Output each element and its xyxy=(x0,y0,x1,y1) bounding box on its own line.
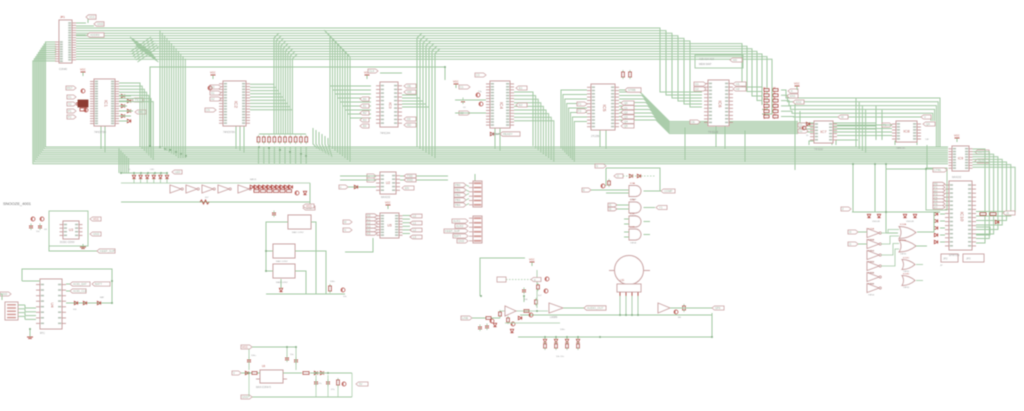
svg-text:L1: L1 xyxy=(413,221,417,225)
svg-text:A15 A14 A13: A15 A14 A13 xyxy=(699,57,715,61)
svg-text:BAT41: BAT41 xyxy=(250,178,257,181)
svg-text:74F04: 74F04 xyxy=(868,295,875,297)
svg-text:H2: H2 xyxy=(736,87,740,91)
svg-text:STRB: STRB xyxy=(628,88,636,92)
svg-text:RXD: RXD xyxy=(407,178,413,182)
svg-text:Q5: Q5 xyxy=(624,124,628,128)
svg-text:PB4: PB4 xyxy=(455,203,461,207)
svg-text:74HC00: 74HC00 xyxy=(896,147,905,150)
svg-text:M0: M0 xyxy=(733,58,737,62)
svg-text:J1: J1 xyxy=(1006,211,1009,215)
svg-text:MAX232: MAX232 xyxy=(952,176,962,179)
svg-text:IC10: IC10 xyxy=(960,212,965,222)
svg-text:BAT: BAT xyxy=(100,296,105,299)
svg-text:74F32: 74F32 xyxy=(903,271,910,273)
svg-text:74F: 74F xyxy=(925,139,929,141)
svg-text:IC12C: IC12C xyxy=(903,258,910,260)
svg-text:74HC244: 74HC244 xyxy=(380,132,391,135)
svg-text:BATT: BATT xyxy=(95,282,102,286)
svg-text:IC11B: IC11B xyxy=(868,240,874,242)
svg-text:IC7: IC7 xyxy=(820,129,827,134)
svg-text:BATT: BATT xyxy=(454,234,461,238)
svg-text:IC6: IC6 xyxy=(718,100,723,108)
svg-text:PB1: PB1 xyxy=(455,188,461,192)
svg-text:IC11C: IC11C xyxy=(868,251,874,253)
svg-text:Q1: Q1 xyxy=(624,106,628,110)
svg-text:IC9C: IC9C xyxy=(630,214,635,216)
svg-text:VCC: VCC xyxy=(93,217,99,221)
svg-text:MAX CONV: MAX CONV xyxy=(276,260,288,263)
svg-text:IC12A: IC12A xyxy=(900,223,907,226)
svg-text:VCC: VCC xyxy=(242,345,248,349)
svg-text:IC12B: IC12B xyxy=(900,240,907,242)
svg-text:27C256: 27C256 xyxy=(591,135,600,138)
svg-text:K: K xyxy=(791,89,793,93)
svg-text:C1: C1 xyxy=(460,85,464,89)
svg-text:U5: U5 xyxy=(387,224,392,228)
svg-text:GND: GND xyxy=(97,22,103,26)
svg-text:SPK: SPK xyxy=(715,306,721,310)
svg-text:A1: A1 xyxy=(211,91,215,95)
svg-text:DCDC-CONV: DCDC-CONV xyxy=(60,241,75,244)
svg-text:READY: READY xyxy=(503,132,513,136)
svg-text:JP3: JP3 xyxy=(966,257,971,261)
svg-text:D0: D0 xyxy=(407,117,411,121)
svg-text:SNOOZE_4001: SNOOZE_4001 xyxy=(3,201,32,206)
svg-text:EPM7032: EPM7032 xyxy=(949,254,960,257)
svg-text:IC11E: IC11E xyxy=(868,273,874,275)
svg-text:IC2: IC2 xyxy=(234,101,239,109)
svg-text:PB3: PB3 xyxy=(455,198,461,202)
svg-text:100n: 100n xyxy=(330,281,336,283)
svg-text:L0: L0 xyxy=(413,214,417,218)
svg-text:74F32: 74F32 xyxy=(900,254,907,256)
svg-text:P1: P1 xyxy=(68,109,72,113)
svg-text:IC3: IC3 xyxy=(388,102,393,109)
svg-text:VCC: VCC xyxy=(529,258,535,262)
svg-text:VCC: VCC xyxy=(210,71,216,75)
svg-text:IC5: IC5 xyxy=(602,104,607,112)
svg-text:B3: B3 xyxy=(363,118,367,122)
svg-text:IC9D: IC9D xyxy=(630,227,635,229)
svg-text:CE: CE xyxy=(691,120,695,124)
svg-text:VCC: VCC xyxy=(80,68,86,72)
svg-text:V: V xyxy=(233,371,235,375)
svg-text:G: G xyxy=(596,164,598,168)
svg-text:C3: C3 xyxy=(476,73,480,77)
svg-text:AUX1: AUX1 xyxy=(453,219,461,223)
svg-text:LM386: LM386 xyxy=(550,316,558,319)
svg-text:B4: B4 xyxy=(363,124,367,128)
svg-text:Q3: Q3 xyxy=(624,115,628,119)
svg-text:F2: F2 xyxy=(578,109,582,113)
svg-text:LS1: LS1 xyxy=(620,279,625,282)
svg-text:LINE: LINE xyxy=(462,316,468,320)
svg-text:KEEP_SUP: KEEP_SUP xyxy=(445,229,460,233)
svg-text:GND: GND xyxy=(458,239,464,243)
svg-text:5V: 5V xyxy=(359,382,363,386)
svg-text:Y1: Y1 xyxy=(659,206,663,210)
svg-text:Q4: Q4 xyxy=(624,120,628,124)
svg-text:1N4148: 1N4148 xyxy=(872,221,880,223)
svg-text:74HC573N: 74HC573N xyxy=(223,131,235,134)
svg-text:CS: CS xyxy=(206,108,210,112)
svg-text:VCC: VCC xyxy=(385,201,391,205)
svg-text:74HC00: 74HC00 xyxy=(814,148,823,151)
svg-text:RD: RD xyxy=(407,123,411,127)
svg-text:U2: U2 xyxy=(386,181,391,185)
svg-text:AUX2: AUX2 xyxy=(456,224,464,228)
svg-text:74F32: 74F32 xyxy=(903,287,910,289)
svg-text:VCC: VCC xyxy=(954,134,960,138)
svg-text:P2: P2 xyxy=(68,115,72,119)
svg-text:N: N xyxy=(344,228,346,232)
svg-text:MAX232: MAX232 xyxy=(381,196,391,199)
svg-text:F1: F1 xyxy=(578,102,582,106)
svg-text:Z: Z xyxy=(842,207,844,211)
svg-text:MAX CONV: MAX CONV xyxy=(276,281,288,284)
svg-text:CTRL: CTRL xyxy=(934,168,942,172)
svg-text:B1: B1 xyxy=(363,104,367,108)
svg-text:E1: E1 xyxy=(519,86,523,90)
svg-text:L3: L3 xyxy=(413,235,417,239)
svg-text:MAX-CONV-5: MAX-CONV-5 xyxy=(256,386,272,389)
svg-text:EN1: EN1 xyxy=(790,94,796,98)
svg-text:COMP: COMP xyxy=(664,189,673,193)
svg-text:P7: P7 xyxy=(934,205,938,209)
svg-text:VCC: VCC xyxy=(306,204,312,208)
svg-text:ACID_CLK: ACID_CLK xyxy=(73,289,87,293)
svg-text:K5: K5 xyxy=(367,232,371,236)
svg-text:A2: A2 xyxy=(211,97,215,101)
svg-text:VCC: VCC xyxy=(453,80,459,84)
svg-text:KEEP_SUP: KEEP_SUP xyxy=(100,249,115,253)
svg-text:74HC138: 74HC138 xyxy=(708,131,719,134)
svg-text:U3: U3 xyxy=(69,228,74,232)
svg-text:AUDIO_OUT: AUDIO_OUT xyxy=(587,306,604,310)
svg-text:PB2: PB2 xyxy=(455,193,461,197)
svg-text:L2: L2 xyxy=(413,228,417,232)
svg-text:ACID_DAT: ACID_DAT xyxy=(73,282,87,286)
svg-text:IC9: IC9 xyxy=(958,157,964,161)
svg-text:VCC: VCC xyxy=(794,82,800,86)
svg-text:JP1: JP1 xyxy=(60,15,65,19)
svg-text:IC11F: IC11F xyxy=(868,284,874,286)
svg-text:8R: 8R xyxy=(678,317,681,319)
svg-text:IC11D: IC11D xyxy=(868,262,874,264)
svg-text:E: E xyxy=(583,188,585,192)
svg-text:G1: G1 xyxy=(695,82,699,86)
svg-text:E2: E2 xyxy=(519,103,523,107)
svg-text:QA: QA xyxy=(926,122,930,126)
svg-text:IC11A: IC11A xyxy=(868,228,874,231)
svg-text:100n: 100n xyxy=(560,329,566,331)
svg-text:U4: U4 xyxy=(50,302,55,308)
svg-text:IC12D: IC12D xyxy=(903,274,910,276)
svg-text:W: W xyxy=(841,115,844,119)
svg-text:S2: S2 xyxy=(799,129,803,133)
svg-text:IC9B: IC9B xyxy=(630,200,635,202)
svg-text:LED: LED xyxy=(150,169,155,171)
svg-text:V: V xyxy=(924,115,926,119)
svg-text:LED: LED xyxy=(175,170,180,174)
svg-text:GND: GND xyxy=(93,232,99,236)
svg-text:H1: H1 xyxy=(736,82,740,86)
svg-text:74F08: 74F08 xyxy=(630,243,637,245)
svg-text:ADDR0: ADDR0 xyxy=(90,33,100,37)
svg-text:Q0: Q0 xyxy=(624,101,628,105)
svg-text:GND: GND xyxy=(242,395,248,399)
svg-text:PB0: PB0 xyxy=(455,183,461,187)
svg-text:CLK: CLK xyxy=(369,69,375,73)
svg-text:B0: B0 xyxy=(363,97,367,101)
svg-text:MEM MAP: MEM MAP xyxy=(699,62,712,66)
svg-text:EN: EN xyxy=(405,186,409,190)
svg-text:X2: X2 xyxy=(68,102,72,106)
svg-text:OE: OE xyxy=(407,84,411,88)
svg-text:74HC573N: 74HC573N xyxy=(94,131,106,134)
svg-text:JP2: JP2 xyxy=(943,257,948,261)
svg-text:RTC: RTC xyxy=(40,332,45,335)
svg-text:VCC: VCC xyxy=(89,15,95,19)
svg-text:IC9A: IC9A xyxy=(630,182,635,185)
svg-text:10n 10n: 10n 10n xyxy=(556,356,565,358)
svg-text:D: D xyxy=(617,174,619,178)
svg-text:IC8: IC8 xyxy=(903,129,910,134)
svg-text:CON40: CON40 xyxy=(59,68,68,71)
svg-text:100u: 100u xyxy=(251,355,257,357)
svg-text:X1: X1 xyxy=(68,95,72,99)
svg-text:G2: G2 xyxy=(695,87,699,91)
svg-text:IC1: IC1 xyxy=(104,100,109,108)
svg-text:Q2: Q2 xyxy=(624,110,628,114)
svg-text:EN2: EN2 xyxy=(796,100,802,104)
svg-text:RST: RST xyxy=(67,86,73,90)
svg-text:1N4148: 1N4148 xyxy=(906,221,914,223)
svg-text:MAX CONV: MAX CONV xyxy=(292,231,304,234)
svg-text:IC4: IC4 xyxy=(499,102,504,110)
svg-text:WR: WR xyxy=(407,90,412,94)
svg-text:B2: B2 xyxy=(363,111,367,115)
svg-text:62256LP: 62256LP xyxy=(490,133,500,136)
